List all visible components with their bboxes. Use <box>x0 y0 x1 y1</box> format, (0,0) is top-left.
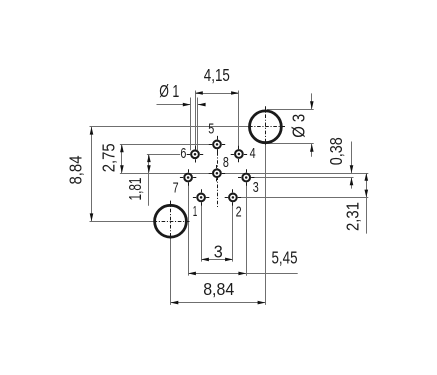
wire: long extension line at pin 8 centre level (y=173) <box>120 173 368 175</box>
dimension 3 (pin 1 to pin 2) line with arrows <box>201 258 233 262</box>
pin label 4 <box>250 145 256 162</box>
pin label 8 <box>223 154 229 171</box>
wire: extension line up from pin 4 for 4,15 dimension <box>238 91 240 150</box>
svg-text:5,45: 5,45 <box>272 247 298 267</box>
pin label 6 <box>180 145 186 162</box>
value label 5,45 <box>272 247 298 267</box>
mounting hole M2 (Ø3, bottom left) <box>154 201 191 239</box>
value label 4,15 <box>204 65 230 85</box>
svg-text:7: 7 <box>173 179 179 196</box>
value label Ø 1 <box>159 81 179 101</box>
mounting hole M1 (Ø3, top right) <box>249 106 286 144</box>
dimension 5,45 (pin 7 to pin 3, pitch circle) line with arrows <box>188 272 298 276</box>
wire: extension line down from pin 2 <box>232 202 234 261</box>
wire: projection line down from hole M1 to bottom dimension <box>265 144 267 305</box>
pin label 1 <box>193 203 198 220</box>
pin label 2 <box>236 203 242 220</box>
wire: extension line tangent to bottom of hole M1 <box>267 143 314 145</box>
svg-text:5: 5 <box>208 121 214 138</box>
value label 0,38 (rotated) <box>326 137 346 165</box>
value label 2,31 (rotated) <box>343 202 363 231</box>
svg-text:2: 2 <box>236 203 242 220</box>
svg-text:Ø 1: Ø 1 <box>159 81 179 101</box>
pin label 3 <box>253 179 259 196</box>
wire: extension line at pin 5 level (y=144.4) <box>120 144 213 146</box>
svg-text:Ø 3: Ø 3 <box>288 114 308 138</box>
wire: projection line down from hole M2 to bottom dimension <box>170 238 172 305</box>
dimension 8,84 (horizontal, bottom) line with arrows <box>171 301 266 305</box>
pin 7 (contact hole) <box>180 169 196 185</box>
wire: extension line at pin 3 level going right (y=177.5) <box>251 177 354 179</box>
dimension 0,38 (centre to pin 3 level) line with outside arrows <box>350 142 354 189</box>
pin 1 (contact hole) <box>193 189 209 205</box>
dimension 2,31 (centre to pin 1/2 level) line with arrows <box>365 173 369 234</box>
dimension 4,15 (pin 6 to pin 4) line with arrows <box>195 91 239 95</box>
value label 8,84 (bottom) <box>203 279 234 299</box>
value label 8,84 (left, rotated) <box>66 155 86 184</box>
pin 4 (contact hole) <box>231 146 247 162</box>
value label 3 <box>214 242 223 262</box>
wire: extension line tangent to top of hole M1 <box>267 109 314 111</box>
wire: extension line at mounting-hole M2 centre level (y=221.2) <box>90 221 155 223</box>
dimension Ø1 leader with outside arrows (pin hole diameter) <box>157 103 206 107</box>
svg-text:4: 4 <box>250 145 256 162</box>
pin 3 (contact hole) <box>238 169 254 185</box>
svg-text:0,38: 0,38 <box>326 137 346 165</box>
pin label 7 <box>173 179 179 196</box>
wire: extension line down from pin 7 <box>188 182 190 275</box>
svg-text:8: 8 <box>223 154 229 171</box>
pin 6 (contact hole) <box>187 146 203 162</box>
dimension 1,81 (pin 6 level to centre) line with arrows <box>147 154 151 206</box>
wire: extension line up from pin 6 for 4,15 dimension <box>195 91 197 151</box>
wire: extension line at mounting-hole M1 centre level (top, y=126.8) <box>90 126 250 128</box>
wire: extension line down from pin 3 <box>246 182 248 276</box>
dimension 2,75 (pin 5 to centre) line with arrows <box>120 144 124 173</box>
svg-text:8,84: 8,84 <box>203 279 234 299</box>
svg-text:6: 6 <box>180 145 186 162</box>
value label 1,81 (rotated) <box>125 178 145 201</box>
svg-text:1: 1 <box>193 203 198 220</box>
centerline: vertical axis of pin field through pins 5 and 8 <box>217 136 219 207</box>
svg-text:1,81: 1,81 <box>125 178 145 201</box>
svg-text:3: 3 <box>214 242 223 262</box>
wire: extension line at pin 2 level going right (y=197.4) <box>238 197 369 199</box>
wire: extension line at pin 6 level (left part with gap for label 6) <box>147 154 190 156</box>
dimension 8,84 (vertical, left) line with arrows <box>90 127 94 221</box>
pin label 5 <box>208 121 214 138</box>
svg-text:3: 3 <box>253 179 259 196</box>
pin 2 (contact hole) <box>225 189 241 205</box>
pin 5 (contact hole) <box>209 136 225 152</box>
value label Ø 3 (rotated) <box>288 114 308 138</box>
svg-text:8,84: 8,84 <box>66 155 86 184</box>
wire: extension lines of pin 6 hole diameter (tangents, Ø1) <box>191 98 198 151</box>
svg-text:4,15: 4,15 <box>204 65 230 85</box>
svg-text:2,31: 2,31 <box>343 202 363 231</box>
svg-text:2,75: 2,75 <box>98 143 118 172</box>
dimension Ø3 (hole M1 diameter) line with outside arrows <box>310 93 314 156</box>
pin 8 (centre contact hole) <box>209 165 225 181</box>
wire: extension line down from pin 1 <box>201 202 203 261</box>
value label 2,75 (rotated) <box>98 143 118 172</box>
